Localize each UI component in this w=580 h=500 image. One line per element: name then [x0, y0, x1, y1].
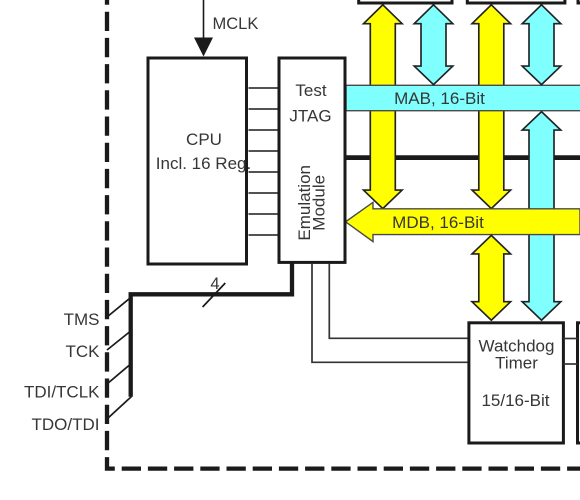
arrow cyan column2 (box B to MAB) [522, 5, 561, 85]
svg-text:Timer: Timer [495, 354, 538, 373]
wire rung2 [249, 108, 280, 110]
ladder wires CPU to JTAG [249, 88, 280, 235]
bus MAB, 16-Bit [346, 85, 580, 110]
pin diagonal TCK [107, 331, 131, 350]
svg-text:TCK: TCK [66, 342, 101, 361]
box top C corner (cut off) [578, 0, 580, 3]
svg-text:JTAG: JTAG [289, 107, 331, 126]
thick 4-wire JTAG bus [131, 262, 292, 397]
pin diagonal TDO/TDI [107, 397, 132, 420]
svg-text:TMS: TMS [64, 310, 100, 329]
wire rung4 [249, 150, 280, 152]
wire rung3 [249, 129, 280, 131]
wire emulation to watchdog (upper) [329, 264, 469, 339]
wire rung7 [249, 213, 280, 215]
svg-text:Module: Module [310, 175, 329, 231]
bus MDB, 16-Bit [346, 202, 580, 241]
pin diagonal TMS [107, 298, 131, 318]
svg-text:4: 4 [210, 275, 219, 293]
box top A (cut off) [359, 0, 452, 3]
pin diagonal TDI/TCLK [107, 364, 131, 384]
thick bus line (JTAG to right) [346, 155, 580, 160]
arrow cyan column1 (box A to MAB) [414, 5, 453, 85]
svg-text:MAB, 16-Bit: MAB, 16-Bit [394, 89, 485, 108]
bus width slash [203, 283, 226, 307]
svg-text:MDB, 16-Bit: MDB, 16-Bit [392, 213, 484, 232]
box top B (cut off) [467, 0, 565, 3]
svg-text:Test: Test [295, 81, 326, 100]
svg-text:MCLK: MCLK [213, 15, 259, 33]
svg-text:TDO/TDI: TDO/TDI [32, 415, 100, 434]
dashed device border [107, 0, 580, 469]
arrow yellow column1 (box A to MDB) [364, 5, 403, 209]
svg-text:TDI/TCLK: TDI/TCLK [24, 383, 100, 402]
box CPU [148, 58, 247, 264]
arrow cyan MAB-to-Watchdog [522, 112, 561, 321]
wire rung1 [249, 87, 280, 89]
svg-text:15/16-Bit: 15/16-Bit [481, 391, 549, 410]
arrow yellow MDB-to-Watchdog [472, 235, 511, 320]
wire MCLK [203, 0, 205, 40]
arrow yellow column2 (box B to MDB) [472, 5, 511, 209]
box Watchdog Timer [469, 323, 564, 443]
wire rung6 [249, 192, 280, 194]
wire watchdog to right box (upper) [563, 338, 577, 340]
box right of watchdog (cut off) [578, 323, 580, 443]
wire rung8 [249, 234, 280, 236]
svg-text:Incl. 16 Reg.: Incl. 16 Reg. [156, 154, 251, 173]
wire rung5 [249, 171, 280, 173]
wire watchdog to right box (lower) [563, 363, 577, 365]
svg-text:CPU: CPU [186, 130, 222, 149]
wire emulation to watchdog (lower) [312, 264, 469, 363]
arrowhead MCLK into CPU [194, 38, 213, 57]
box Test JTAG / Emulation Module [279, 58, 345, 262]
